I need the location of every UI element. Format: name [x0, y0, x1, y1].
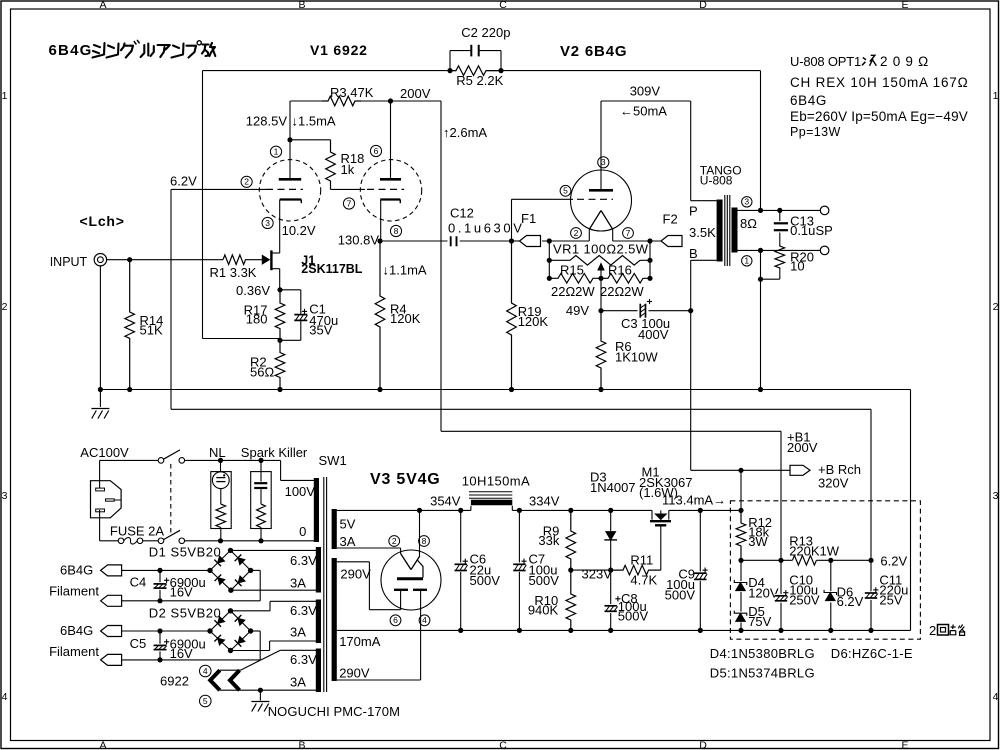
node 200V [388, 98, 393, 103]
svg-text:E: E [901, 740, 908, 750]
svg-text:3: 3 [601, 157, 606, 167]
wire 6.2V bias line down [170, 189, 172, 409]
flag F1 [512, 240, 520, 242]
flag F2 [661, 236, 682, 247]
node V2 grid [509, 238, 514, 243]
svg-text:Eb=260V Ip=50mA Eg=−49V: Eb=260V Ip=50mA Eg=−49V [790, 109, 968, 124]
wire ground bus drop right [910, 390, 912, 631]
svg-text:220K1W: 220K1W [789, 544, 840, 559]
OPT primary lead B [691, 259, 717, 261]
svg-text:354V: 354V [430, 494, 461, 509]
node ground R19 [509, 387, 514, 392]
svg-text:10: 10 [790, 259, 804, 274]
svg-text:500V: 500V [470, 573, 501, 588]
V1b cathode [380, 198, 400, 200]
resistor R13 220K1W [792, 556, 816, 566]
capacitor C12 0.1u630V [450, 236, 452, 246]
svg-text:8: 8 [422, 536, 427, 546]
pin 2 V2 filament [571, 228, 582, 239]
svg-text:6.3V: 6.3V [290, 603, 317, 618]
wire R18 to V1b grid [331, 188, 366, 190]
svg-text:170mA: 170mA [339, 634, 381, 649]
wire D1 plus to 6B4G flag [121, 569, 210, 571]
V3 cathode bar [397, 577, 423, 580]
svg-text:B: B [298, 740, 305, 750]
wire V1a grid lead to 6.2V line [171, 188, 266, 190]
svg-text:500V: 500V [529, 573, 560, 588]
svg-text:INPUT: INPUT [50, 255, 88, 269]
svg-text:500V: 500V [665, 588, 696, 603]
capacitor C1 470u 35V [280, 289, 301, 291]
svg-text:500V: 500V [618, 609, 649, 624]
svg-text:56Ω: 56Ω [250, 364, 274, 379]
svg-text:3: 3 [2, 490, 8, 502]
wire +B Rch feed down [740, 470, 742, 510]
V1b grid dashes [367, 188, 404, 190]
svg-text:D6:HZ6C-1-E: D6:HZ6C-1-E [831, 646, 913, 661]
title katakana strokes [94, 45, 100, 47]
svg-text:3A: 3A [290, 674, 306, 689]
capacitor C11 220u 25V [870, 560, 872, 630]
triode V1b envelope (dashed) [360, 160, 421, 221]
OPT primary winding bar [717, 200, 723, 262]
pin 8 V3 [419, 536, 430, 547]
node rail right bottom [647, 276, 652, 281]
wire D1 minus loop to flag [251, 569, 261, 571]
resistor R5 2.2K [450, 66, 501, 76]
pin 3 V1a cathode [262, 217, 273, 228]
svg-text:E: E [901, 0, 908, 11]
svg-text:33k: 33k [538, 533, 559, 548]
node C7 rail [517, 508, 522, 513]
node ground R2 [277, 387, 282, 392]
wire feedback right drop to output [760, 71, 762, 211]
wire D2 AC bottom to winding [231, 650, 270, 652]
svg-text:R11: R11 [630, 553, 653, 568]
node D5 ground [738, 628, 743, 633]
pin 5 heater tag [200, 695, 212, 707]
node D3 rail [608, 508, 613, 513]
AC inlet plug [91, 481, 122, 518]
node spark killer top [258, 458, 263, 463]
svg-text:A: A [99, 740, 106, 750]
pin 3 OPT secondary [742, 197, 752, 207]
svg-text:0.1u630V: 0.1u630V [448, 220, 524, 235]
resistor R18 1k [290, 139, 331, 141]
capacitor C3 100u 400V [601, 310, 638, 312]
svg-text:←50mA: ←50mA [620, 104, 667, 119]
svg-text:FUSE 2A: FUSE 2A [110, 523, 165, 538]
svg-text:U-808: U-808 [700, 174, 733, 188]
svg-text:6B4G: 6B4G [49, 42, 93, 59]
pin 4 heater tag [200, 665, 212, 677]
svg-text:6922: 6922 [160, 674, 189, 689]
svg-text:1: 1 [274, 147, 279, 157]
node C10 top [778, 558, 783, 563]
svg-text:2: 2 [244, 177, 249, 187]
earth ground symbol [99, 390, 101, 408]
svg-text:3W: 3W [748, 534, 768, 549]
node C11 ground [868, 628, 873, 633]
svg-text:1k: 1k [341, 162, 355, 177]
svg-text:Spark Killer: Spark Killer [241, 445, 308, 460]
svg-text:D5:1N5374BRLG: D5:1N5374BRLG [710, 666, 815, 681]
tube V2 6B4G envelope [571, 170, 632, 231]
svg-text:R16: R16 [608, 263, 632, 278]
svg-text:120V: 120V [748, 586, 779, 601]
node feedback tap [758, 208, 763, 213]
wire +B Rch line [691, 469, 790, 471]
svg-text:V2 6B4G: V2 6B4G [560, 43, 627, 60]
svg-text:Filament: Filament [49, 584, 99, 599]
dashed box 2nd circuit [730, 501, 920, 639]
resistor R9 33k [566, 510, 576, 570]
wire J1 source to 0.36V node [279, 269, 281, 290]
switch SW1 pole 2 [143, 540, 158, 542]
wire 5V bottom lead [337, 547, 401, 549]
flag 6B4G filament B plus [101, 626, 122, 637]
wire plug bottom to fuse [99, 510, 101, 541]
svg-text:3A: 3A [340, 534, 356, 549]
node C9 rail [698, 508, 703, 513]
V2 plate bar [589, 189, 613, 192]
node 0.36V [277, 287, 282, 292]
svg-text:R1 3.3K: R1 3.3K [210, 265, 257, 280]
V1b plate bar and lead [390, 101, 392, 179]
wire 200V node line [741, 559, 792, 561]
svg-text:CH REX 10H 150mA 167Ω: CH REX 10H 150mA 167Ω [790, 75, 968, 90]
svg-text:C: C [499, 0, 507, 11]
V1a grid dashes [266, 188, 303, 190]
kanji tsugi strokes [863, 58, 866, 60]
VR1 wiper arrow [598, 264, 604, 271]
pin 8 V1b cathode [390, 225, 401, 236]
node C13 top [777, 208, 782, 213]
svg-text:↑2.6mA: ↑2.6mA [443, 125, 487, 140]
zener D4 120V [740, 560, 742, 581]
pin 1 V1a plate [270, 146, 281, 157]
svg-text:51K: 51K [140, 323, 163, 338]
zener D6 6.2V [830, 560, 832, 591]
svg-text:323V: 323V [582, 567, 613, 582]
node ground R4 [377, 387, 382, 392]
svg-text:6.3V: 6.3V [290, 553, 317, 568]
flag 6B4G filament A plus [101, 565, 122, 576]
wire HV bottom lead to right plate [420, 590, 422, 680]
resistor R11 4.7K [611, 565, 661, 575]
flag +B Rch [790, 465, 810, 475]
node C10 ground [778, 628, 783, 633]
resistor R16 22ohm 2W [601, 274, 650, 284]
switch gang dashed link [170, 464, 172, 536]
svg-text:AC100V: AC100V [80, 445, 129, 460]
transformer primary winding bar 100V [314, 478, 319, 542]
node C7 ground [517, 628, 522, 633]
node C6 ground [458, 628, 463, 633]
svg-text:1: 1 [2, 90, 8, 102]
svg-text:↓1.5mA: ↓1.5mA [292, 114, 336, 129]
svg-text:3A: 3A [290, 624, 306, 639]
node V1a plate [287, 137, 292, 142]
capacitor C13 0.1u [779, 210, 781, 221]
svg-text:320V: 320V [818, 476, 849, 491]
node heater ground [258, 688, 263, 693]
svg-text:R15: R15 [560, 263, 584, 278]
resistor R17 180 [275, 290, 285, 341]
pin 7 V1b grid [343, 198, 354, 209]
svg-text:F1: F1 [521, 211, 536, 226]
transformer HV winding bar [332, 558, 337, 681]
svg-text:7: 7 [626, 228, 631, 238]
svg-text:16V: 16V [170, 646, 193, 661]
svg-text:8: 8 [394, 226, 399, 236]
triode V1a envelope (dashed) [259, 160, 320, 221]
node cathode junction [277, 338, 282, 343]
flag 6B4G filament B minus [101, 654, 122, 665]
V3 plates [394, 589, 408, 591]
svg-text:V3 5V4G: V3 5V4G [370, 471, 441, 488]
node 323V [568, 568, 573, 573]
wire VR1 right rail [649, 241, 651, 278]
svg-text:NOGUCHI PMC-170M: NOGUCHI PMC-170M [268, 704, 400, 719]
svg-text:8Ω: 8Ω [740, 216, 757, 231]
wire V1a cathode to J1 drain [279, 200, 281, 254]
wire M1 output rail [669, 509, 741, 511]
node C5 top [157, 628, 162, 633]
V2 filament [589, 211, 601, 230]
wire 309V plate line [601, 100, 691, 102]
svg-text:290V: 290V [340, 567, 371, 582]
node V3 cathode to rail [417, 508, 422, 513]
node filament left rail [547, 238, 552, 243]
V3 filament [400, 548, 402, 554]
node ground secondary [758, 387, 763, 392]
svg-text:NL: NL [209, 445, 226, 460]
transformer 5V winding bar [332, 509, 337, 549]
svg-text:↓1.1mA: ↓1.1mA [383, 263, 427, 278]
svg-text:6.2V: 6.2V [880, 554, 907, 569]
svg-text:6.2V: 6.2V [837, 594, 864, 609]
pin 6 V3 [390, 615, 401, 626]
pin 4 V3 [419, 615, 430, 626]
capacitor C6 22u 500V [460, 510, 462, 630]
svg-text:4.7K: 4.7K [630, 573, 657, 588]
svg-text:10.2V: 10.2V [282, 223, 316, 238]
svg-text:4: 4 [993, 691, 999, 703]
svg-text:0: 0 [299, 524, 306, 539]
SP terminal bottom [820, 246, 829, 255]
node C3 to B line [688, 308, 693, 313]
wire 5V top lead / B+ rail start [337, 509, 471, 511]
node secondary ground [758, 248, 763, 253]
node spark killer bottom [258, 538, 263, 543]
svg-text:D4:1N5380BRLG: D4:1N5380BRLG [710, 646, 815, 661]
wire input line [107, 259, 223, 261]
wire D2 minus loop to flag [251, 630, 261, 632]
node C4 bottom [157, 598, 162, 603]
fuse FUSE 2A [118, 538, 124, 544]
svg-text:3.5K: 3.5K [689, 225, 716, 240]
capacitor C4 6900u 16V [159, 570, 161, 582]
transformer 6.3V winding bar 2 [316, 600, 321, 644]
node D3 R11 junction [608, 568, 613, 573]
svg-text:0.36V: 0.36V [236, 283, 270, 298]
svg-text:3: 3 [744, 197, 749, 207]
svg-text:Filament: Filament [49, 644, 99, 659]
capacitor C10 100u 250V [780, 560, 782, 630]
svg-text:SP: SP [816, 223, 833, 238]
svg-text:16V: 16V [170, 585, 193, 600]
node C5 bottom [157, 657, 162, 662]
svg-text:5V: 5V [340, 517, 356, 532]
svg-text:SW1: SW1 [319, 453, 347, 468]
resistor R20 10 [775, 245, 785, 269]
node 130.8V [377, 238, 382, 243]
wire HV center tap bus 0V [337, 629, 911, 631]
capacitor C2 220p [449, 51, 451, 71]
OPT primary lead P [691, 200, 717, 202]
wire HV top lead to left plate [337, 561, 370, 563]
svg-text:D1 S5VB20: D1 S5VB20 [149, 544, 221, 559]
svg-text:4: 4 [2, 691, 8, 703]
wire +B1 line [441, 430, 781, 432]
svg-text:35V: 35V [309, 323, 332, 338]
node M1 output end [738, 508, 743, 513]
node C4 top [157, 568, 162, 573]
svg-text:3A: 3A [290, 576, 306, 591]
wire V1b cathode to 130.8V node [380, 200, 382, 242]
SP terminal top [820, 206, 829, 215]
svg-text:C4: C4 [130, 575, 147, 590]
pin 3 V2 plate [598, 157, 609, 168]
transformer 6.3V winding bar 1 [316, 547, 321, 593]
node R15 R16 junction [598, 276, 603, 281]
node 49V [598, 308, 603, 313]
wire D2 AC top to winding [231, 610, 271, 612]
svg-text:200V: 200V [400, 86, 431, 101]
svg-text:R5 2.2K: R5 2.2K [456, 73, 503, 88]
svg-text:100V: 100V [285, 484, 316, 499]
svg-text:6.3V: 6.3V [290, 652, 317, 667]
svg-text:VR1 100Ω2.5W: VR1 100Ω2.5W [553, 242, 649, 257]
switch SW1 pole 1 [158, 458, 164, 464]
svg-text:U-808 OPT1: U-808 OPT1 [790, 54, 861, 69]
ground bus [100, 389, 910, 391]
svg-text:180: 180 [246, 312, 268, 327]
svg-text:Pp=13W: Pp=13W [790, 125, 841, 139]
svg-text:2: 2 [929, 623, 936, 638]
node C9 ground [698, 628, 703, 633]
svg-text:6B4G: 6B4G [790, 93, 827, 108]
svg-text:0.1u: 0.1u [790, 223, 815, 238]
V2 grid dashes [577, 198, 613, 200]
resistor R10 940K [566, 570, 576, 630]
svg-text:200V: 200V [787, 440, 818, 455]
node NL top [218, 458, 223, 463]
node R10 ground [568, 628, 573, 633]
svg-text:49V: 49V [566, 303, 589, 318]
svg-text:5: 5 [203, 696, 208, 706]
node NL bottom [218, 538, 223, 543]
resistor R12 18k 3W [736, 510, 746, 560]
svg-text:1: 1 [744, 256, 749, 266]
node R9 rail [568, 508, 573, 513]
node VR1 right [647, 258, 652, 263]
resistor R15 22ohm 2W [549, 274, 601, 284]
svg-text:<Lch>: <Lch> [80, 213, 125, 229]
resistor R1 3.3K [223, 255, 262, 265]
svg-text:2SK117BL: 2SK117BL [301, 262, 363, 276]
svg-text:A: A [99, 0, 106, 11]
wire feedback top horizontal [203, 70, 457, 72]
resistor R14 51K [125, 260, 135, 390]
node VR1 left [547, 258, 552, 263]
svg-text:2: 2 [2, 301, 8, 313]
svg-text:1N4007: 1N4007 [590, 480, 636, 495]
wire VR1 left rail [548, 241, 550, 278]
pin 2 V3 [389, 536, 400, 547]
svg-text:B: B [298, 0, 305, 11]
svg-text:5: 5 [563, 186, 568, 196]
OPT secondary bottom lead [738, 249, 821, 251]
svg-text:2: 2 [392, 536, 397, 546]
node rail left bottom [547, 276, 552, 281]
wire feedback left drop to cathode [202, 71, 204, 339]
tube V3 envelope [381, 550, 441, 610]
svg-text:400V: 400V [638, 327, 669, 342]
svg-text:4: 4 [422, 615, 427, 625]
svg-text:3: 3 [265, 218, 270, 228]
svg-text:22Ω2W: 22Ω2W [551, 284, 595, 299]
svg-text:V1 6922: V1 6922 [310, 42, 368, 58]
capacitor C8 100u 500V [610, 570, 612, 630]
earth ground at heater [259, 690, 261, 700]
wire secondary return to ground [760, 250, 762, 389]
OPT core lines [724, 195, 726, 266]
wire plug top to switch [99, 460, 101, 488]
svg-text:C2 220p: C2 220p [461, 25, 510, 40]
wire rail choke to M1 [512, 509, 652, 511]
svg-text:120K: 120K [518, 314, 549, 329]
node filament right rail [647, 238, 652, 243]
wire switch pole2 to transformer 0 [185, 540, 317, 542]
wire 6.3V-3 bottom lead [220, 689, 317, 691]
svg-text:940K: 940K [528, 603, 559, 618]
svg-text:D: D [699, 0, 707, 11]
wire plate supply line 200V [290, 100, 328, 102]
input jack [94, 254, 106, 266]
wire B+ riser to PSU [440, 101, 442, 431]
svg-text:7: 7 [347, 198, 352, 208]
svg-text:D: D [699, 740, 707, 750]
OPT secondary winding bar [732, 208, 738, 253]
resistor R19 120K [507, 241, 517, 390]
svg-text:1: 1 [993, 90, 999, 102]
jfet J1 2SK117BL [262, 255, 269, 264]
svg-text:P: P [689, 204, 698, 219]
svg-text:120K: 120K [390, 311, 421, 326]
pin 5 V2 grid [560, 185, 571, 196]
svg-text:6: 6 [393, 615, 398, 625]
V1a plate bar [279, 178, 301, 181]
svg-text:2: 2 [574, 228, 579, 238]
wire 6.2V bias bus [171, 408, 871, 410]
node feedback-R5 left [447, 68, 452, 73]
svg-text:250V: 250V [789, 593, 820, 608]
node R12 bottom 200V [738, 558, 743, 563]
svg-text:25V: 25V [879, 593, 902, 608]
resistor R2 56ohm [275, 340, 285, 389]
